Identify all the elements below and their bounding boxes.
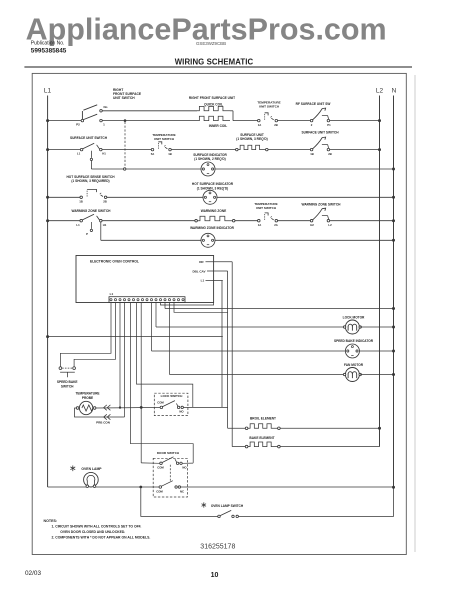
- label surface indicator: [193, 153, 227, 161]
- switch temperature unit switch row4: [258, 219, 261, 222]
- svg-text:WARMING ZONE: WARMING ZONE: [201, 209, 227, 213]
- label temperature probe: [75, 391, 99, 400]
- svg-text:UNIT SWITCH: UNIT SWITCH: [154, 137, 175, 141]
- svg-text:L1: L1: [76, 223, 80, 227]
- title underline: [24, 66, 412, 68]
- svg-text:RIGHT FRONT SURFACE UNIT: RIGHT FRONT SURFACE UNIT: [189, 96, 235, 100]
- svg-text:02/03: 02/03: [25, 570, 41, 577]
- svg-text:1B: 1B: [168, 152, 172, 156]
- wire t2 to speed bake switch right: [74, 303, 115, 367]
- wire row4 to element: [102, 220, 196, 222]
- label hot surface indicator: [192, 182, 234, 190]
- wire lock to door COM vertical: [140, 303, 142, 463]
- wire warming indicator drop: [100, 222, 102, 240]
- switch RF surface unit switch: [310, 119, 313, 122]
- svg-text:(1 SHOWN, 3 REQUIRED): (1 SHOWN, 3 REQUIRED): [71, 179, 109, 183]
- svg-text:WIRING SCHEMATIC: WIRING SCHEMATIC: [175, 57, 254, 66]
- svg-text:WARMING ZONE SWITCH: WARMING ZONE SWITCH: [72, 209, 112, 213]
- wire row3 to indicator: [107, 196, 203, 198]
- switch right front surface unit switch (DP): [76, 105, 108, 127]
- svg-text:NOTES:: NOTES:: [44, 519, 58, 523]
- svg-text:ELECTRONIC OVEN CONTROL: ELECTRONIC OVEN CONTROL: [90, 260, 139, 264]
- wire probe return loop: [75, 408, 125, 417]
- label temperature unit switch row4: [254, 202, 277, 210]
- svg-text:1: 1: [103, 123, 105, 127]
- switch oven lamp switch: [218, 510, 239, 517]
- svg-text:L1: L1: [201, 278, 205, 282]
- resistor bake element: [245, 442, 280, 448]
- wire door switch NC to N: [181, 486, 394, 488]
- wire coil join vertical: [232, 111, 234, 121]
- wire L2 rail: [379, 96, 381, 447]
- svg-text:L1: L1: [110, 292, 114, 296]
- wire broil row to L2: [280, 427, 379, 429]
- connector probe upper: [104, 405, 111, 410]
- wire DBL vertical to broil: [227, 271, 229, 428]
- wire row4 to N: [330, 220, 394, 222]
- svg-text:SWITCH: SWITCH: [61, 385, 74, 389]
- wire oven lamp switch branch: [141, 488, 218, 516]
- wire lock motor row left: [156, 326, 345, 328]
- resistor broil element: [245, 424, 280, 430]
- svg-text:2B: 2B: [328, 152, 332, 156]
- svg-text:10: 10: [211, 572, 219, 579]
- wire door switch link: [169, 465, 171, 482]
- junction broil L2: [378, 427, 381, 430]
- junction row1 L2: [378, 119, 381, 122]
- svg-text:SPEED BAKE: SPEED BAKE: [57, 380, 78, 384]
- wire oven lamp switch to N: [239, 487, 394, 516]
- wire t3 to probe circuit: [119, 303, 121, 408]
- publication number text: [31, 41, 67, 55]
- label surface unit element: [236, 133, 267, 141]
- svg-text:L1: L1: [44, 88, 52, 95]
- svg-text:(1 SHOWN, 3 REQ'D): (1 SHOWN, 3 REQ'D): [197, 186, 228, 190]
- svg-text:DBL CAV: DBL CAV: [192, 269, 205, 273]
- label speed bake switch: [57, 380, 78, 389]
- wire L1 output: [206, 280, 223, 282]
- resistor warming zone element: [195, 216, 235, 222]
- wire DR vertical to bake: [231, 262, 233, 447]
- motor fan motor: [345, 368, 359, 382]
- wire L1 to warming zone switch: [48, 220, 80, 222]
- motor lock motor: [345, 320, 359, 334]
- label hot surface sense switch: [67, 175, 116, 183]
- svg-text:OVEN LAMP SWITCH: OVEN LAMP SWITCH: [211, 504, 244, 508]
- terminal row2b tap: [124, 168, 126, 170]
- svg-text:LOCK MOTOR: LOCK MOTOR: [343, 315, 365, 319]
- label temperature unit switch row1: [257, 101, 280, 109]
- wire door switch NO link: [182, 462, 193, 464]
- junction L1 row3: [46, 196, 49, 199]
- wire row2 to surface unit switch right: [268, 149, 310, 151]
- wire fan motor row left: [170, 374, 345, 376]
- wire t13 to N row: [164, 303, 166, 309]
- wire oven lamp row L1 side: [48, 486, 87, 488]
- connector probe lower: [104, 414, 111, 419]
- svg-text:1B: 1B: [79, 200, 83, 204]
- wire surface indicator row: [91, 168, 201, 170]
- svg-text:BROIL ELEMENT: BROIL ELEMENT: [250, 417, 276, 421]
- svg-text:2. COMPONENTS WITH * DO NOT A: 2. COMPONENTS WITH * DO NOT APPEAR ON AL…: [52, 536, 151, 540]
- wire row2 to temperature switch: [102, 149, 151, 151]
- svg-text:INNER COIL: INNER COIL: [209, 124, 227, 128]
- svg-text:1A: 1A: [258, 123, 262, 127]
- svg-text:PRB CON: PRB CON: [96, 420, 110, 424]
- svg-text:QUICK COIL: QUICK COIL: [204, 103, 223, 107]
- lamp surface indicator: [201, 162, 215, 176]
- wire N feed row: [165, 308, 394, 310]
- wire broil row left: [228, 427, 246, 429]
- svg-text:NC: NC: [180, 490, 184, 494]
- wire L1 rail: [47, 96, 49, 488]
- svg-text:SURFACE UNIT SWITCH: SURFACE UNIT SWITCH: [70, 136, 108, 140]
- op-box electronic oven control: [76, 256, 214, 303]
- switch right front surface unit switch label: [113, 88, 142, 100]
- wire row4b to N: [215, 239, 394, 241]
- notes text block: [44, 519, 151, 540]
- wire t14 to fan motor row: [169, 303, 171, 375]
- svg-text:No: No: [104, 105, 108, 109]
- junction row3 N: [392, 196, 395, 199]
- svg-text:RF SURFACE UNIT SW: RF SURFACE UNIT SW: [296, 102, 331, 106]
- wire bake row left: [232, 446, 245, 448]
- svg-text:DOOR SWITCH: DOOR SWITCH: [157, 451, 180, 455]
- label oven lamp: [70, 466, 102, 472]
- svg-text:P2: P2: [76, 123, 80, 127]
- wire door switch COM feed: [141, 462, 160, 464]
- svg-text:UNIT SWITCH: UNIT SWITCH: [256, 206, 277, 210]
- svg-text:P1: P1: [327, 123, 331, 127]
- svg-text:L1: L1: [77, 152, 81, 156]
- svg-text:NO: NO: [179, 410, 184, 414]
- wire L1 vertical to lock switch: [221, 281, 223, 408]
- junction L1 distribution: [46, 335, 49, 338]
- wire L1 to hot surface switch: [48, 196, 80, 198]
- svg-text:2B: 2B: [103, 200, 107, 204]
- lamp warming zone indicator: [201, 233, 215, 247]
- svg-text:(1 SHOWN, 2 REQ'D): (1 SHOWN, 2 REQ'D): [194, 157, 225, 161]
- scan artifact vertical streak: [414, 75, 416, 552]
- wire warming indicator row: [101, 239, 201, 241]
- wire t11 to lock motor: [155, 303, 157, 328]
- svg-text:N: N: [392, 88, 397, 95]
- wire L1 to switch P2: [48, 120, 82, 122]
- junction row2b N: [392, 168, 395, 171]
- lamp oven lamp: [84, 472, 99, 487]
- junction speed bake indicator N: [392, 350, 395, 353]
- switch speed bake switch: [59, 367, 75, 378]
- wire row2 to L2: [330, 149, 380, 151]
- svg-text:SPEED BAKE INDICATOR: SPEED BAKE INDICATOR: [334, 339, 374, 343]
- wire t1 to speed bake switch left: [60, 303, 111, 367]
- lamp speed bake indicator: [345, 344, 359, 358]
- wire t15 stub: [174, 303, 228, 313]
- switch warming zone switch right: [310, 219, 313, 222]
- junction oven lamp branch: [139, 486, 142, 489]
- wire L1 distribution row: [48, 336, 223, 338]
- svg-text:1A: 1A: [258, 223, 262, 227]
- svg-text:H1: H1: [102, 152, 106, 156]
- svg-text:DR: DR: [199, 260, 204, 264]
- junction probe t3: [119, 406, 121, 408]
- svg-text:L2: L2: [376, 88, 384, 95]
- junction N feed: [392, 307, 395, 310]
- wire oven lamp to door switch: [96, 486, 159, 488]
- switch surface unit switch right: [310, 148, 313, 151]
- wire row2b to N: [215, 168, 394, 170]
- wire t10 to speed bake indicator: [151, 303, 153, 352]
- resistor inner coil: [197, 116, 230, 120]
- switch temperature unit switch row1: [258, 119, 261, 122]
- switch temperature unit switch row2: [151, 148, 154, 151]
- svg-text:GSE3WZ9CBB: GSE3WZ9CBB: [196, 41, 226, 46]
- switch door switch upper: [157, 457, 187, 470]
- switch hot surface sense switch: [80, 196, 83, 199]
- wire t12 stub: [161, 303, 214, 306]
- wire lock switch NO out: [184, 406, 228, 408]
- label oven lamp switch: [202, 502, 244, 508]
- wire t4 to probe return: [124, 303, 126, 418]
- svg-text:NO: NO: [182, 466, 187, 470]
- svg-text:L2: L2: [328, 223, 332, 227]
- junction L1 row4: [46, 219, 49, 222]
- wire L1 to surface unit switch: [48, 149, 81, 151]
- resistor surface unit element: [236, 145, 268, 151]
- resistor quick coil: [197, 106, 230, 110]
- wire row1 to RF switch: [278, 120, 311, 122]
- resistor temperature probe: [76, 401, 96, 414]
- wire row4 to warming zone switch right: [278, 220, 311, 222]
- svg-text:5A: 5A: [151, 152, 155, 156]
- junction fan motor N: [392, 373, 395, 376]
- junction lock motor N: [392, 326, 395, 329]
- switch surface unit switch row2: [77, 143, 106, 155]
- svg-text:COM: COM: [157, 466, 164, 470]
- svg-text:OVEN LAMP: OVEN LAMP: [81, 467, 102, 471]
- wire DBL output: [207, 270, 228, 272]
- svg-text:FAN MOTOR: FAN MOTOR: [344, 363, 364, 367]
- wire DR output: [206, 261, 233, 263]
- svg-text:COM: COM: [156, 490, 163, 494]
- svg-text:2: 2: [311, 123, 313, 127]
- svg-text:Publication No.: Publication No.: [31, 41, 65, 47]
- junction L1 row2: [46, 148, 49, 151]
- wire speed bake indicator row left: [152, 350, 346, 352]
- border frame: [32, 73, 406, 554]
- svg-text:1B: 1B: [310, 152, 314, 156]
- svg-text:316255178: 316255178: [200, 544, 235, 551]
- lamp hot surface indicator: [203, 190, 217, 204]
- wire row2 to element: [171, 149, 235, 151]
- op-box lock switch dashed: [154, 393, 188, 415]
- wire row1 upper branch: [102, 110, 197, 112]
- svg-text:H2: H2: [310, 223, 314, 227]
- wire dashed tap row1 to indicator feed: [124, 122, 126, 168]
- wire lock motor to N: [360, 326, 393, 328]
- svg-text:LOCK SWITCH: LOCK SWITCH: [161, 394, 184, 398]
- junction row2 L2: [378, 148, 381, 151]
- junction row4 N: [392, 219, 395, 222]
- svg-text:5995385845: 5995385845: [31, 47, 67, 54]
- switch door switch lower: [156, 481, 184, 494]
- svg-text:WARMING ZONE SWITCH: WARMING ZONE SWITCH: [302, 203, 342, 207]
- wire t5 to door switch upper: [131, 303, 194, 463]
- svg-text:2B: 2B: [274, 123, 278, 127]
- junction oven lamp N: [392, 486, 395, 489]
- wire row1 lower branch: [102, 120, 197, 122]
- junction lock COM feed: [140, 406, 143, 409]
- wire switch pilot drop: [90, 151, 92, 169]
- svg-text:1. CIRCUIT SHOWN WITH ALL CON: 1. CIRCUIT SHOWN WITH ALL CONTROLS SET T…: [52, 525, 142, 529]
- wire row3 to N: [217, 196, 394, 198]
- svg-text:WARMING ZONE INDICATOR: WARMING ZONE INDICATOR: [190, 226, 234, 230]
- wire t6 lock loop feed: [137, 303, 193, 408]
- wire row1 to temperature switch: [233, 120, 258, 122]
- wire fan motor to N: [360, 374, 393, 376]
- label temperature unit switch row2: [152, 133, 175, 141]
- svg-text:P: P: [86, 232, 88, 236]
- svg-text:PROBE: PROBE: [82, 396, 93, 400]
- op-box door switch inner dashed: [153, 458, 187, 497]
- svg-text:(1 SHOWN, 3 REQ'D): (1 SHOWN, 3 REQ'D): [236, 137, 267, 141]
- svg-text:UNIT SWITCH: UNIT SWITCH: [113, 96, 135, 100]
- switch warming zone switch left: [76, 214, 106, 236]
- junction row1 tap: [124, 119, 127, 122]
- svg-text:TEMPERATURE: TEMPERATURE: [75, 391, 99, 395]
- svg-text:COM: COM: [157, 401, 164, 405]
- terminal strip connector: [109, 297, 185, 303]
- wire speed bake indicator to N: [360, 350, 394, 352]
- junction L1 row1: [46, 119, 49, 122]
- switch lock switch: [157, 401, 184, 414]
- svg-text:OVEN DOOR CLOSED AND UNLOCKED.: OVEN DOOR CLOSED AND UNLOCKED.: [60, 530, 125, 534]
- wire bake row to L2: [280, 446, 379, 448]
- svg-text:2A: 2A: [274, 223, 278, 227]
- junction row4b N: [392, 239, 395, 242]
- wire N rail: [393, 96, 395, 488]
- svg-text:BAKE ELEMENT: BAKE ELEMENT: [249, 436, 274, 440]
- svg-text:UNIT SWITCH: UNIT SWITCH: [259, 105, 280, 109]
- wire probe to lock switch: [96, 406, 160, 409]
- svg-text:H1: H1: [103, 223, 107, 227]
- wire row4 to temperature switch: [235, 220, 258, 222]
- svg-text:SURFACE UNIT SWITCH: SURFACE UNIT SWITCH: [301, 131, 339, 135]
- wire row1 to L2: [330, 120, 380, 122]
